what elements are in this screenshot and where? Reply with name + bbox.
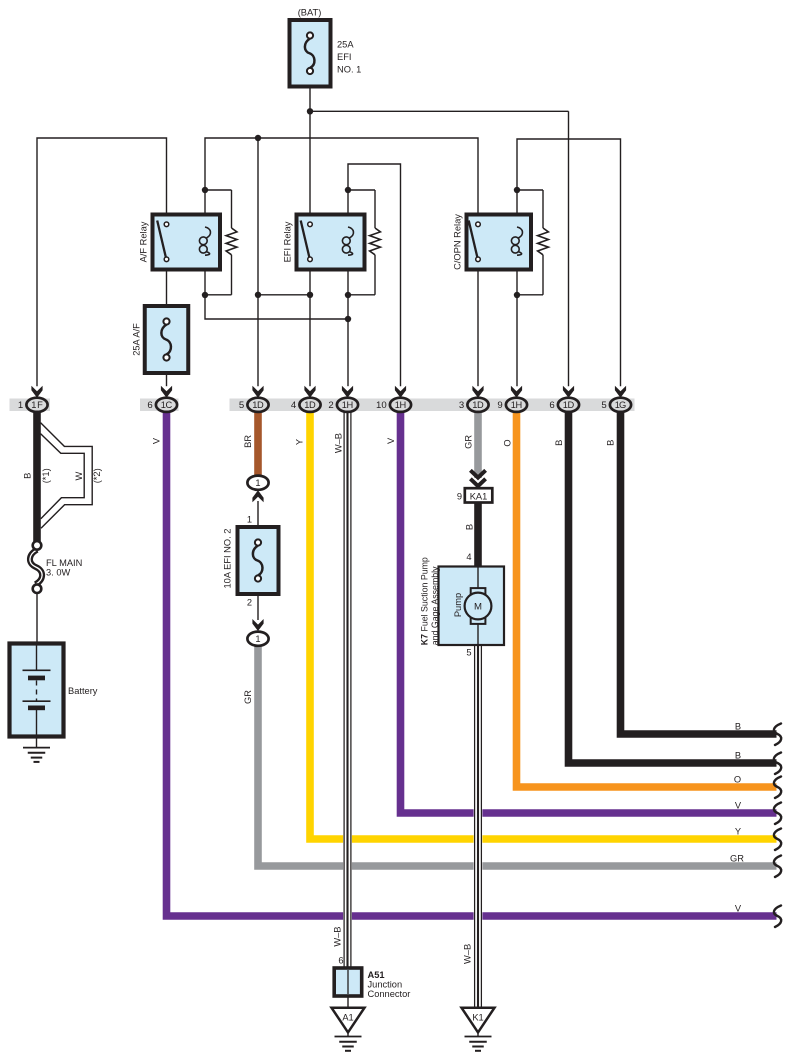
wire vertical to connector 5 1D — [257, 138, 259, 386]
svg-text:V: V — [386, 437, 396, 444]
svg-text:10: 10 — [376, 400, 387, 411]
junction at fuse line y=111 — [307, 108, 313, 114]
stub to ground A1 — [347, 1032, 349, 1036]
continuation mark wire O — [774, 777, 781, 799]
arrow into connector 9 1H — [511, 386, 522, 398]
stub to ground K1 — [477, 1032, 479, 1036]
arrow into connector 10 1H — [395, 386, 406, 398]
connector strip segment 1 (1F) — [10, 399, 51, 412]
svg-text:NO. 1: NO. 1 — [337, 64, 361, 74]
svg-text:6: 6 — [147, 400, 152, 411]
junction A-F coil top — [202, 187, 208, 193]
svg-text:4: 4 — [291, 400, 297, 411]
wire 25A A-F fuse to connector 6 1C — [166, 373, 168, 386]
wire B from KA1 to fuel pump — [474, 502, 482, 567]
svg-text:B: B — [554, 440, 564, 446]
arrow down into junction connector 1 (bottom) — [252, 619, 263, 631]
wire C-OPN coil bottom pin to 9 1H — [516, 255, 518, 386]
wire C-OPN coil to resistor top bracket — [517, 189, 543, 191]
arrow into connector 2 1H — [342, 386, 353, 398]
connector 10 1H — [390, 398, 411, 412]
continuation mark wire Y — [774, 829, 781, 851]
svg-text:6: 6 — [338, 955, 343, 965]
svg-text:B: B — [464, 524, 474, 530]
wire GR from junction 1 to right edge — [258, 646, 777, 866]
arrow into connector 1 1F — [31, 386, 42, 398]
connector strip segment 2 (1C) — [140, 399, 179, 412]
wire EFI coil bottom pin — [347, 255, 349, 319]
junction A-F coil bottom — [202, 292, 208, 298]
svg-text:1: 1 — [255, 634, 260, 644]
svg-text:K7 Fuel Suction Pump: K7 Fuel Suction Pump — [420, 557, 430, 645]
wire A-F resistor bottom bracket — [205, 294, 232, 296]
arrow up into junction connector 1 (top) — [252, 490, 263, 502]
svg-text:KA1: KA1 — [470, 491, 488, 501]
svg-text:2: 2 — [247, 597, 252, 607]
ground below battery — [23, 747, 50, 749]
wire top bus y=111 to 6 1D — [310, 110, 569, 112]
connector 6 1D — [558, 398, 579, 412]
wire W-B from 2 1H down to A51 — [343, 411, 352, 969]
wire BR from 5 1D to junction connector 1 — [254, 411, 262, 476]
svg-text:Y: Y — [295, 439, 305, 445]
wire Y from 4 1D to right edge — [310, 411, 777, 840]
connector 9 1H — [506, 398, 527, 412]
svg-text:W–B: W–B — [332, 927, 342, 947]
svg-text:1: 1 — [255, 478, 260, 488]
svg-text:V: V — [152, 437, 162, 444]
relay A/F Relay — [153, 215, 221, 270]
ground triangle K1 — [462, 1008, 495, 1033]
wire V from 10 1H to right edge — [401, 411, 777, 814]
svg-text:4: 4 — [466, 552, 471, 562]
svg-text:B: B — [22, 473, 32, 479]
relay EFI Relay — [297, 215, 365, 270]
wire O from 9 1H to right edge — [517, 411, 777, 788]
wire A-F switch to 25A A-F fuse — [166, 269, 168, 306]
wire fuse EFI NO.1 down to EFI relay switch — [309, 87, 311, 216]
wire A51 to ground A1 — [347, 996, 349, 1007]
arrow into connector 5 1G — [615, 386, 626, 398]
svg-text:25A A/F: 25A A/F — [131, 323, 141, 356]
svg-text:A/F Relay: A/F Relay — [138, 221, 148, 262]
fuse 25A A/F — [145, 306, 189, 373]
continuation mark wire B — [774, 724, 781, 746]
junction EFI coil bottom — [345, 292, 351, 298]
fusible link FL MAIN 3.0W — [30, 550, 42, 585]
junction connector A51 — [334, 968, 362, 996]
svg-text:Connector: Connector — [368, 989, 411, 999]
wire EFI coil bus y=164 to 10 1H — [348, 164, 401, 386]
svg-text:25A: 25A — [337, 40, 354, 50]
connector 2 1H — [337, 398, 358, 412]
svg-text:V: V — [735, 800, 742, 810]
wire junction 1 to fuse 10A EFI NO. 2 — [257, 501, 259, 527]
connector 6 1C — [156, 398, 177, 412]
svg-text:1H: 1H — [511, 400, 523, 410]
battery plate symbols — [23, 669, 51, 671]
wire down to connector 2 1H — [347, 319, 349, 386]
junction 5 1D bottom link — [255, 292, 261, 298]
connector 5 1G — [610, 398, 631, 412]
svg-text:B: B — [735, 721, 741, 731]
fuel suction pump K7 box — [439, 567, 505, 646]
wire A-F coil ground run to EFI coil line — [205, 295, 348, 319]
wire right bus y=139 C-OPN coil to 5 1G — [517, 139, 621, 386]
svg-text:and Gage Assembly: and Gage Assembly — [430, 566, 440, 645]
arrow double chevron into KA1 — [470, 470, 485, 477]
svg-text:O: O — [734, 774, 741, 784]
wire 1F up / across / down to A-F relay switch — [37, 138, 167, 386]
wire C-OPN switch to connector 3 1D — [477, 269, 479, 386]
svg-text:FL MAIN: FL MAIN — [46, 558, 82, 568]
svg-text:B: B — [735, 750, 741, 760]
ground triangle A1 — [332, 1008, 365, 1033]
wire EFI switch to connector 4 1D — [309, 269, 311, 386]
svg-text:C/OPN Relay: C/OPN Relay — [452, 214, 462, 270]
svg-text:B: B — [606, 440, 616, 446]
junction connector 1 (top) — [247, 476, 268, 490]
wire fusible link to battery — [36, 593, 38, 644]
wire B from 6 1D to right edge — [569, 411, 777, 764]
wire GR from 3 1D to KA1 — [474, 411, 482, 479]
continuation mark wire V — [774, 906, 781, 928]
svg-text:1D: 1D — [304, 400, 316, 410]
svg-text:Battery: Battery — [68, 686, 98, 696]
wire EFI coil top pin — [347, 190, 349, 227]
battery internal lead top — [36, 645, 38, 670]
junction EFI switch bottom link — [307, 292, 313, 298]
svg-text:9: 9 — [457, 492, 462, 502]
wire A-F coil to resistor top bracket — [205, 189, 232, 191]
junction C-OPN coil bottom — [514, 292, 520, 298]
junction connector 1 (bottom) — [247, 632, 268, 646]
svg-text:(*2): (*2) — [92, 468, 102, 483]
continuation mark wire B — [774, 753, 781, 775]
fuse 25A EFI NO. 1 (BAT) — [290, 20, 331, 87]
svg-text:9: 9 — [497, 400, 502, 411]
wire W branch outline (parallel circuit *2) — [41, 423, 93, 529]
pump internal lead top — [477, 567, 479, 589]
svg-text:1F: 1F — [31, 400, 43, 410]
svg-text:A1: A1 — [342, 1012, 353, 1022]
svg-text:(BAT): (BAT) — [298, 7, 322, 17]
svg-text:1D: 1D — [252, 400, 264, 410]
svg-text:6: 6 — [549, 400, 554, 411]
svg-text:10A EFI NO. 2: 10A EFI NO. 2 — [222, 529, 232, 589]
svg-text:3. 0W: 3. 0W — [46, 568, 71, 578]
junction C-OPN coil top — [514, 187, 520, 193]
arrow into connector 3 1D — [472, 386, 483, 398]
svg-text:1: 1 — [247, 514, 252, 524]
wire A-F coil top pin — [204, 190, 206, 227]
svg-text:BR: BR — [243, 435, 253, 448]
arrow into connector 6 1D — [563, 386, 574, 398]
arrow into connector 5 1D — [252, 386, 263, 398]
svg-text:1C: 1C — [161, 400, 173, 410]
wire B from 1F to fusible link — [33, 411, 41, 543]
svg-text:W–B: W–B — [463, 944, 473, 964]
junction EFI coil top — [345, 187, 351, 193]
pump internal lead bottom — [477, 624, 479, 645]
svg-text:V: V — [735, 903, 742, 913]
svg-text:Y: Y — [735, 826, 741, 836]
connector strip segment 3 (1D/1H/1G row) — [230, 399, 635, 412]
fuse 10A EFI NO. 2 — [238, 527, 279, 594]
battery internal lead bottom — [36, 710, 38, 748]
wire C-OPN resistor bottom bracket — [517, 294, 543, 296]
wire vertical to connector 6 1D — [568, 111, 570, 386]
svg-text:(*1): (*1) — [41, 468, 51, 483]
connector 1 1F — [26, 398, 47, 412]
svg-text:5: 5 — [239, 400, 244, 411]
connector 4 1D — [299, 398, 320, 412]
arrow into connector 4 1D — [304, 386, 315, 398]
svg-text:1D: 1D — [563, 400, 575, 410]
continuation mark wire GR — [774, 856, 781, 878]
wire mid bus y=138 A-F coil to C-OPN relay switch — [205, 138, 478, 215]
pump motor M — [471, 588, 486, 594]
svg-text:GR: GR — [730, 853, 744, 863]
battery — [10, 644, 64, 737]
connector 3 1D — [467, 398, 488, 412]
svg-text:1G: 1G — [615, 400, 627, 410]
svg-text:W: W — [74, 471, 84, 480]
arrow into connector 6 1C — [161, 386, 172, 398]
svg-text:K1: K1 — [472, 1012, 483, 1022]
wire link 5 1D column to EFI switch column — [258, 294, 310, 296]
wire EFI coil to resistor top bracket — [348, 189, 375, 191]
wire C-OPN coil top pin — [516, 190, 518, 227]
wire A-F coil bottom pin — [204, 255, 206, 295]
junction 5 1D on mid bus — [255, 135, 261, 141]
svg-text:O: O — [503, 439, 513, 446]
wire W-B from fuel pump down to K1 — [474, 645, 483, 1007]
svg-text:EFI: EFI — [337, 52, 351, 62]
wire V from 6 1C to right edge — [167, 411, 777, 917]
svg-text:1H: 1H — [395, 400, 407, 410]
junction coils ground merge — [345, 316, 351, 322]
svg-text:GR: GR — [464, 435, 474, 449]
svg-text:2: 2 — [328, 400, 333, 411]
svg-text:GR: GR — [243, 690, 253, 704]
continuation mark wire V — [774, 803, 781, 825]
svg-text:5: 5 — [466, 647, 471, 657]
svg-text:3: 3 — [459, 400, 464, 411]
connector 5 1D — [247, 398, 268, 412]
svg-text:1D: 1D — [472, 400, 484, 410]
svg-text:M: M — [474, 602, 482, 613]
ground A1 — [335, 1036, 362, 1038]
relay C/OPN Relay — [467, 215, 532, 270]
wire EFI resistor bottom bracket — [348, 294, 375, 296]
wire fuse 10A to junction connector 1 (bottom) — [257, 594, 259, 620]
ground K1 — [465, 1036, 492, 1038]
svg-text:1H: 1H — [342, 400, 354, 410]
svg-text:Pump: Pump — [453, 593, 463, 617]
connector KA1 — [465, 488, 493, 502]
svg-text:W–B: W–B — [334, 433, 344, 453]
wire B from 5 1G to right edge — [621, 411, 777, 735]
svg-text:EFI Relay: EFI Relay — [282, 221, 292, 262]
svg-text:5: 5 — [601, 400, 606, 411]
svg-text:1: 1 — [18, 400, 23, 411]
